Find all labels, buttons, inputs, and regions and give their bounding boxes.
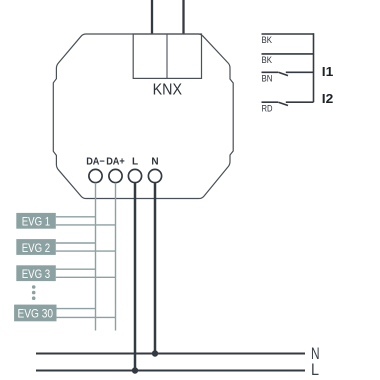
svg-text:N: N (151, 157, 158, 168)
wire N (vertical) (154, 183, 157, 354)
input wire BK 2 (262, 53, 314, 55)
EVG 3 box (16, 265, 56, 281)
junction N (152, 350, 158, 356)
svg-text:BN: BN (262, 74, 273, 84)
input wire RD with switch contact (262, 102, 314, 105)
svg-text:EVG 3: EVG 3 (22, 267, 51, 281)
ellipsis dots (32, 285, 36, 300)
EVG 2 box (16, 239, 56, 255)
junction L (132, 367, 138, 373)
EVG 3 wire to DA- (56, 268, 96, 270)
terminal circle DA- (89, 169, 102, 182)
EVG 30 wire to DA- (57, 308, 96, 310)
EVG 1 wire to DA+ (56, 224, 116, 226)
svg-text:KNX: KNX (153, 82, 183, 99)
DALI DA+ bus wire (vertical) (115, 183, 117, 331)
EVG 30 box (14, 305, 56, 322)
svg-text:DA+: DA+ (106, 157, 125, 168)
input bus vertical wire (313, 33, 315, 102)
EVG 2 wire to DA+ (56, 250, 116, 252)
EVG 1 box (16, 213, 56, 229)
EVG 1 wire to DA- (56, 216, 96, 218)
svg-text:I1: I1 (322, 64, 334, 79)
svg-text:EVG 2: EVG 2 (22, 241, 51, 255)
EVG 2 wire to DA- (56, 242, 96, 244)
wire L (vertical) (134, 183, 137, 371)
svg-text:I2: I2 (322, 91, 334, 106)
svg-text:L: L (311, 360, 319, 379)
input wire BN with switch contact (262, 72, 314, 75)
svg-text:EVG 1: EVG 1 (22, 215, 51, 229)
terminal circle N (148, 169, 161, 182)
KNX bus wire right (182, 0, 184, 34)
svg-text:DA−: DA− (86, 157, 105, 168)
device outline (flush-mounted actuator) (53, 34, 233, 199)
svg-text:BK: BK (262, 55, 273, 65)
DALI DA- bus wire (vertical) (95, 183, 97, 331)
input wire BK 1 (262, 33, 314, 35)
KNX bus wire left (151, 0, 153, 34)
svg-text:RD: RD (262, 103, 273, 113)
svg-text:BK: BK (262, 35, 273, 45)
mains line L (horizontal) (36, 370, 305, 372)
terminal circle L (128, 169, 141, 182)
terminal circle DA+ (109, 169, 122, 182)
EVG 3 wire to DA+ (56, 276, 116, 278)
KNX terminal block (133, 34, 201, 78)
svg-text:L: L (132, 157, 138, 168)
svg-text:EVG 30: EVG 30 (18, 307, 54, 321)
EVG 30 wire to DA+ (57, 316, 116, 318)
mains line N (horizontal) (36, 353, 305, 355)
